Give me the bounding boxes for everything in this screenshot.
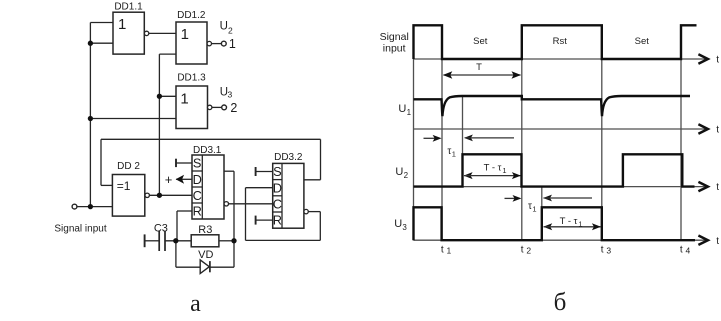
- svg-text:t: t: [680, 244, 683, 255]
- svg-text:1: 1: [452, 150, 456, 159]
- svg-text:D: D: [193, 172, 202, 187]
- svg-text:1: 1: [181, 26, 189, 43]
- svg-text:t: t: [716, 125, 719, 136]
- svg-text:R: R: [273, 213, 282, 228]
- svg-text:1: 1: [407, 108, 412, 117]
- svg-text:DD 2: DD 2: [117, 161, 140, 172]
- svg-text:U: U: [398, 103, 406, 115]
- svg-text:1: 1: [447, 246, 452, 256]
- svg-text:Set: Set: [473, 36, 488, 47]
- svg-text:T: T: [476, 62, 482, 73]
- svg-text:Set: Set: [635, 36, 650, 47]
- svg-text:4: 4: [686, 246, 691, 256]
- svg-text:2: 2: [230, 101, 237, 115]
- svg-text:C: C: [193, 188, 202, 203]
- svg-text:DD1.1: DD1.1: [114, 1, 143, 12]
- svg-text:U: U: [394, 218, 402, 230]
- svg-text:t: t: [716, 182, 719, 193]
- svg-text:t: t: [716, 236, 719, 247]
- svg-text:а: а: [190, 291, 201, 317]
- svg-text:1: 1: [118, 16, 126, 33]
- svg-text:3: 3: [606, 246, 611, 256]
- svg-text:Rst: Rst: [553, 36, 568, 47]
- svg-text:D: D: [273, 180, 282, 195]
- svg-text:R: R: [193, 204, 202, 219]
- svg-text:1: 1: [180, 90, 188, 107]
- svg-text:VD: VD: [198, 249, 213, 261]
- svg-text:C: C: [273, 197, 282, 212]
- svg-text:DD1.3: DD1.3: [177, 73, 206, 84]
- svg-text:C3: C3: [154, 222, 168, 234]
- svg-text:=1: =1: [117, 179, 131, 193]
- svg-text:+: +: [165, 172, 173, 187]
- svg-text:2: 2: [404, 171, 409, 180]
- svg-text:1: 1: [532, 205, 536, 214]
- svg-text:S: S: [273, 164, 282, 179]
- svg-text:t: t: [601, 244, 604, 255]
- svg-text:2: 2: [526, 246, 531, 256]
- svg-text:input: input: [383, 43, 406, 55]
- svg-text:1: 1: [229, 37, 236, 51]
- svg-text:t: t: [521, 244, 524, 255]
- svg-text:S: S: [193, 156, 202, 171]
- svg-text:1: 1: [578, 220, 582, 229]
- svg-text:DD3.1: DD3.1: [193, 145, 222, 156]
- svg-text:T - τ: T - τ: [560, 216, 578, 227]
- svg-text:Signal input: Signal input: [54, 224, 106, 235]
- svg-text:2: 2: [228, 25, 233, 35]
- svg-text:T - τ: T - τ: [484, 162, 502, 173]
- svg-text:DD1.2: DD1.2: [177, 10, 206, 21]
- svg-text:U: U: [220, 21, 228, 33]
- svg-text:3: 3: [402, 223, 407, 232]
- svg-text:t: t: [716, 55, 719, 66]
- svg-text:DD3.2: DD3.2: [274, 152, 303, 163]
- svg-text:R3: R3: [198, 224, 212, 236]
- svg-text:U: U: [395, 166, 403, 178]
- svg-text:1: 1: [502, 166, 506, 175]
- svg-text:3: 3: [228, 90, 233, 100]
- svg-text:Signal: Signal: [380, 31, 409, 43]
- svg-text:б: б: [554, 289, 567, 316]
- svg-text:t: t: [441, 244, 444, 255]
